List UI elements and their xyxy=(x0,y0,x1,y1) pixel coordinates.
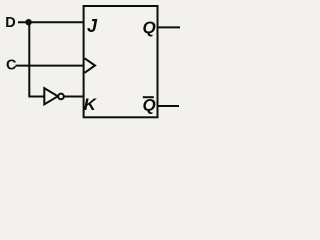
wire Q-bar output xyxy=(158,105,180,107)
flip-flop body U1 xyxy=(84,6,158,117)
wire C to clock xyxy=(16,65,85,67)
inverter bubble xyxy=(58,94,64,100)
inverter U2 triangle xyxy=(44,88,58,104)
svg-text:C: C xyxy=(6,57,17,73)
svg-text:J: J xyxy=(87,16,98,36)
clock triangle xyxy=(85,58,95,73)
wire junction down xyxy=(28,22,30,96)
svg-text:K: K xyxy=(84,95,98,114)
junction dot xyxy=(25,19,31,25)
background paper xyxy=(0,0,186,131)
wire to inverter input xyxy=(28,96,44,98)
svg-text:Q: Q xyxy=(143,18,156,37)
wire D to J xyxy=(18,21,84,23)
wire inverter to K xyxy=(64,96,84,98)
svg-text:D: D xyxy=(5,15,15,31)
wire Q output xyxy=(158,26,181,28)
svg-text:Q: Q xyxy=(143,96,156,115)
Q-bar overline xyxy=(143,96,154,98)
